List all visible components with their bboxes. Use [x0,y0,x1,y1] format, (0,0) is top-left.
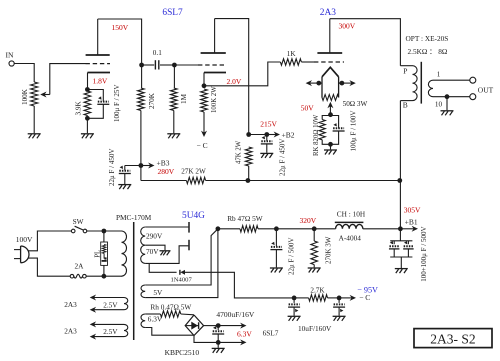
label 270K [148,92,156,109]
voltage label 1.8V [93,77,108,86]
node B2 cap [264,132,269,137]
wire B3 down to rail [140,166,142,181]
cathode RC bottom rail [322,131,338,144]
resistor 2.7K bias [294,287,327,302]
svg-text:100μ F / 25V: 100μ F / 25V [113,85,121,122]
resistor 3.9K cathode [75,91,91,116]
wire coupling cap to grid node [160,64,174,66]
svg-text:3.9K: 3.9K [75,101,83,116]
ground under bias cap 1 [288,316,301,321]
wire cathode down [203,73,205,86]
wire 22uF/500V to ground [275,250,277,268]
svg-text:50V: 50V [301,104,315,113]
node filament left [316,81,321,86]
svg-text:PMC-170M: PMC-170M [116,213,152,222]
OPT secondary coil [428,80,433,97]
svg-text:150V: 150V [112,23,129,32]
capacitor 22uF/450V at B2 [261,136,273,144]
ground under bias cap 2 [333,316,346,321]
node +B2 [246,132,251,137]
label 22uF/450V at B2 [279,139,287,176]
node PL bottom [102,274,107,279]
capacitor 100uF a [389,241,400,249]
node bias cap 2 [337,296,342,301]
svg-text:OPT : XE-20S: OPT : XE-20S [406,34,449,43]
label Rb 47ohm 5W [227,214,263,223]
5U4G filament right lead [145,229,218,298]
PT 2.5V winding 2 [124,324,128,336]
triode V1a plate [86,19,110,55]
svg-text:10uF/160V: 10uF/160V [298,324,332,333]
wire 305V rail [248,180,400,182]
svg-text:SW: SW [73,217,84,226]
svg-text:2.5KΩ ： 8Ω: 2.5KΩ ： 8Ω [408,47,448,56]
switch SW [71,217,86,233]
label A-4004 [339,234,362,243]
wire 270K to +B3 node [140,111,142,166]
svg-text:100K 2W: 100K 2W [211,86,218,113]
triode V1b plate [201,19,226,53]
5U4G plate 1 [188,222,190,233]
filter caps bottom rail [390,249,412,257]
ground under B2 cap [260,153,273,158]
svg-text:B: B [403,100,408,109]
choke CH 10H [335,222,364,228]
resistor RK 820ohm 10W [313,114,325,156]
label 5V [153,288,163,297]
svg-text:1N4007: 1N4007 [171,277,193,284]
wire to coupling cap [142,64,155,66]
pin label 10 [435,101,443,109]
wire filament legs to hum pot [322,77,339,98]
wire cap to ground [266,144,268,153]
wire rail middle [206,180,248,182]
HV center tap [145,245,165,250]
tube label 5U4G [182,211,205,221]
potentiometer VR 100K [21,82,38,106]
wire B1 to filter caps [399,229,401,241]
wire RC to ground [330,144,332,149]
PT core [133,222,135,340]
ground under 1M [167,134,180,139]
label PL [95,250,102,258]
label +B3 [157,158,170,167]
voltage label 6.3V dc [237,329,252,338]
svg-text:280V: 280V [158,167,175,176]
svg-text:100K: 100K [21,88,29,105]
node PL top [102,229,107,234]
OPT primary coil [400,66,417,101]
triode 2A3 plate [317,19,342,53]
arrow -C output [339,295,356,301]
wire choke to B1 [363,228,401,230]
svg-text:10: 10 [435,101,443,109]
voltage label 150V [112,23,129,32]
svg-text:A-4004: A-4004 [339,234,362,243]
svg-text:320V: 320V [300,216,317,225]
wire plate V1a to coupling node [98,19,142,65]
svg-text:2A3- S2: 2A3- S2 [430,331,475,346]
wire pot to ground [33,106,35,133]
label 2.5V w2 [103,327,118,336]
wire tap to ground [446,97,448,111]
label +B2 [282,130,295,139]
svg-text:1K: 1K [287,50,297,58]
wire Rb to 320V node [258,228,276,230]
label P [403,67,407,76]
voltage label 300V [339,22,356,31]
svg-text:27K 2W: 27K 2W [181,168,206,176]
svg-text:305V: 305V [404,206,421,215]
wire switch to transformer [87,230,122,232]
resistor 1M grid leak [171,88,189,111]
node +B1 [398,226,403,231]
svg-text:2.5V: 2.5V [103,300,118,309]
wire bias tap [149,263,176,272]
svg-text:2A: 2A [75,262,85,271]
label B [403,100,408,109]
PT primary coil [122,231,127,276]
voltage label 280V [158,167,175,176]
potentiometer hum 50ohm 3W [322,95,368,109]
wire 2.7K to cap2 [328,297,340,299]
wire rail to B1 node [399,181,401,229]
wire fuse to transformer [86,275,122,277]
node RC bottom [328,142,333,147]
wire to 22uF/450V cap [266,135,268,141]
PT 6.3V winding [141,314,145,328]
wire B3 to cap [125,165,141,167]
arrow filament left 2.5V [306,80,322,86]
wire caps to ground [400,257,402,268]
label 270K 3W [325,236,333,264]
PT 5V winding [141,285,145,298]
wire B2 node [249,134,267,136]
resistor 47K 2W [235,140,252,166]
svg-text:270K: 270K [148,92,156,109]
wire minus to ground [217,342,219,347]
capacitor 4700uF/16V [212,326,224,334]
label 290V [146,231,163,240]
label 10uF/160V [298,324,332,333]
voltage label 305V [404,206,421,215]
ground under 3.9K [81,134,94,139]
triode V1a cathode [88,73,111,90]
wire HV bottom to 5U4G plate2 [145,246,188,264]
arrow to -C supply [201,112,207,137]
svg-text:Rb 47Ω 5W: Rb 47Ω 5W [227,214,263,223]
label 2A3 w2 [64,327,77,336]
cathode RC top rail [322,116,338,129]
label -95V [357,285,378,294]
resistor 270K plate load [138,88,145,111]
ground under RK [324,150,337,155]
terminal sec 10 [470,94,476,100]
svg-text:IN: IN [6,51,15,60]
svg-text:CH : 10H: CH : 10H [337,209,366,218]
ground HV center tap [160,251,171,256]
node hum pot wiper [328,112,333,117]
wire 3.9K to ground [86,116,88,134]
svg-text:1: 1 [437,71,441,79]
label 4700uF/16V [216,310,255,319]
label KBPC2510 [165,348,200,357]
label CH 10H [337,209,366,218]
wire 1M to ground [173,111,175,134]
capacitor 22uF/450V at B3 [119,166,131,174]
wire grid node to 1M [173,65,175,88]
svg-text:22μ F / 450V: 22μ F / 450V [279,139,287,176]
ground under secondary [441,111,454,116]
bridge rectifier KBPC2510 [185,315,203,336]
wire cathode to 1K [204,62,280,86]
PT HV winding [141,227,146,263]
wire to 22uF/500V [275,229,277,247]
svg-text:2A3: 2A3 [320,8,336,18]
label +B1 [405,217,418,226]
label 2.5V w1 [103,300,118,309]
wire cap 22uF/450V [124,166,126,171]
ground under 4700uF [212,348,225,353]
wire 6.3V bottom to bridge [145,328,194,336]
label 2.5Kohm 8ohm [408,47,448,56]
svg-text:0.1: 0.1 [153,49,162,57]
svg-text:2A3: 2A3 [64,327,77,336]
label 2A3 w1 [64,300,77,309]
ground under 100K pot [28,134,41,139]
terminal sec 1 [470,77,476,83]
label OUT [478,85,494,94]
voltage label 50V [301,104,315,113]
arrow 2.5V w1 top [90,295,124,301]
ground under 22uF/500V [270,268,283,273]
wire cap to minus rail [217,334,219,342]
label 70V [146,247,159,256]
triode V1a grid [86,63,111,65]
triode V1b grid [198,64,226,66]
label 6SL7 heater [263,329,279,338]
svg-text:PL: PL [95,250,102,258]
pilot lamp PL [101,231,108,276]
wire HV top to 5U4G plate1 [145,226,188,228]
filament 2A3 [322,67,339,77]
label -C [197,141,208,150]
5U4G plate 2 [188,240,190,251]
svg-text:2A3: 2A3 [64,300,77,309]
arrow 2.5V w2 bottom [90,334,124,340]
svg-text:RK 820Ω 10W: RK 820Ω 10W [313,114,320,156]
label 100uF/25V [113,85,121,122]
svg-text:6.3V: 6.3V [237,329,252,338]
OPT core [420,62,422,104]
svg-text:+B1: +B1 [405,217,418,226]
wire OPT B to rail [399,101,401,181]
voltage label 215V [260,119,277,128]
arrow +B2 [267,132,280,138]
filter caps top rail [390,240,412,242]
wire wiper to grid [50,64,86,95]
svg-text:1M: 1M [180,93,188,104]
label PMC-170M [116,213,152,222]
label Rh 0.47ohm 5W [150,303,191,312]
wire input to volume pot [14,64,34,83]
svg-text:2.7K: 2.7K [310,287,325,295]
label 100uF/100V [349,111,357,152]
resistor 270K 3W bleeder [311,229,318,268]
wire V1b plate to B2 line [215,19,249,135]
triode 2A3 grid [314,61,344,63]
plug AC 100V [14,235,33,263]
capacitor 10uF/160V second [333,298,345,312]
resistor 100K 2W cathode [201,86,218,113]
wire secondary bottom [433,96,470,98]
wire 1K to 2A3 grid [301,61,314,63]
svg-text:OUT: OUT [478,85,494,94]
capacitor 10uF/160V first [288,298,300,312]
capacitor C 0.1 coupling [153,49,162,70]
wire bypass cap to node [87,104,103,118]
tube label 6SL7 [162,8,183,18]
voltage label 320V [300,216,317,225]
wiper arrow hum pot [327,102,333,115]
capacitor 22uF/500V [270,242,282,250]
node secondary ground tap [445,94,450,99]
node 5U4G output [216,226,221,231]
svg-text:4700uF/16V: 4700uF/16V [216,310,255,319]
svg-text:− C: − C [197,141,208,150]
svg-text:5V: 5V [153,288,163,297]
wire bias cap1 ground [293,307,295,316]
node grid V1b [172,63,177,68]
wire 47K to rail [248,166,250,181]
resistor Rb 47ohm 5W [240,226,258,232]
wire 5U4G to Rb [218,228,240,230]
node bias cap 1 [292,296,297,301]
resistor Rh 0.47ohm [145,311,194,317]
arrow 2.5V w2 top [90,321,124,327]
wire plug bottom [28,258,70,276]
diode 1N4007 [171,270,193,284]
capacitor 100uF b [403,241,414,249]
svg-text:22μ F / 450V: 22μ F / 450V [108,149,116,186]
triode V1b cathode [204,72,226,74]
wire node to 270K [141,65,143,88]
svg-text:47K 2W: 47K 2W [235,140,242,164]
svg-text:6SL7: 6SL7 [162,8,183,18]
node rail OPT-B [397,178,402,183]
wire bridge minus [194,336,218,343]
arrow +B3 [141,163,155,169]
arrow filament right 2.5V [339,80,356,86]
svg-text:100μ F / 100V: 100μ F / 100V [349,111,357,152]
svg-text:70V: 70V [146,247,159,256]
svg-text:P: P [403,67,407,76]
node 4700uF top [216,323,221,328]
input terminal IN [6,51,15,67]
node cathode V1b [202,83,207,88]
wiper arrow of 100K pot [40,92,50,98]
pin label 1 [437,71,441,79]
label 100+100uF/500V [420,226,428,281]
node bleeder [312,226,317,231]
wire plug top [28,231,71,251]
arrow 2.5V w1 bottom [90,307,124,313]
title box 2A3-S2 [414,329,492,348]
svg-text:100V: 100V [16,235,33,244]
node first filter cap [274,226,279,231]
capacitor 100uF/100V [333,123,345,131]
node filament right [340,81,345,86]
svg-text:− C: − C [359,293,370,302]
svg-text:22μ F / 500V: 22μ F / 500V [287,238,295,275]
svg-text:1.8V: 1.8V [93,77,108,86]
svg-text:5U4G: 5U4G [182,211,205,221]
arrow 6.3VDC plus [218,323,246,329]
svg-text:2.5V: 2.5V [103,327,118,336]
label OPT XE-20S [406,34,449,43]
wire bias cap2 ground [338,307,340,316]
wire node to bleeder [276,228,335,230]
wire diode to bias filter [185,272,294,298]
svg-text:+B2: +B2 [282,130,295,139]
svg-text:215V: 215V [260,119,277,128]
tube label 2A3 [320,8,336,18]
node 4700uF bottom [216,340,221,345]
ground under filter caps [395,269,408,274]
wire secondary top [433,79,470,81]
svg-text:50Ω 3W: 50Ω 3W [343,100,368,108]
wire to ground [124,174,126,185]
resistor 27K 2W [181,168,206,184]
5U4G filament left lead [145,229,218,285]
wire 2A3 plate to OPT P [330,19,401,66]
node rail 47K [246,178,251,183]
svg-text:270K 3W: 270K 3W [325,236,333,264]
voltage label 2.0V [227,77,242,86]
svg-text:100+100μ F / 500V: 100+100μ F / 500V [420,226,428,281]
node cathode V1a [85,87,90,92]
label 6.3V winding [148,315,163,324]
wire rail left segment [141,180,187,182]
node +B3 [139,163,144,168]
resistor 1K grid stopper [280,50,301,65]
svg-text:KBPC2510: KBPC2510 [165,348,200,357]
wire to bypass cap [87,90,103,102]
arrow 6.3VDC minus [218,339,246,345]
PT 2.5V winding 1 [124,298,128,310]
svg-text:290V: 290V [146,231,163,240]
label 22uF/500V [287,238,295,275]
svg-text:6SL7: 6SL7 [263,329,279,338]
ground under bleeder [308,268,321,273]
ground under B3 cap [118,185,131,190]
label -C out [359,293,370,302]
svg-text:300V: 300V [339,22,356,31]
wire bridge plus out [204,325,219,327]
wire grid node to V1b grid [174,64,198,66]
svg-text:2.0V: 2.0V [227,77,242,86]
svg-text:Rh 0.47Ω 5W: Rh 0.47Ω 5W [150,303,191,312]
node cathode bottom [85,116,90,121]
node plate V1a [139,63,144,68]
fuse 2A [70,262,86,279]
label 22uF/450V at B3 [108,149,116,186]
arrow +B1 [400,226,418,232]
capacitor 100uF/25V bypass [97,96,109,104]
